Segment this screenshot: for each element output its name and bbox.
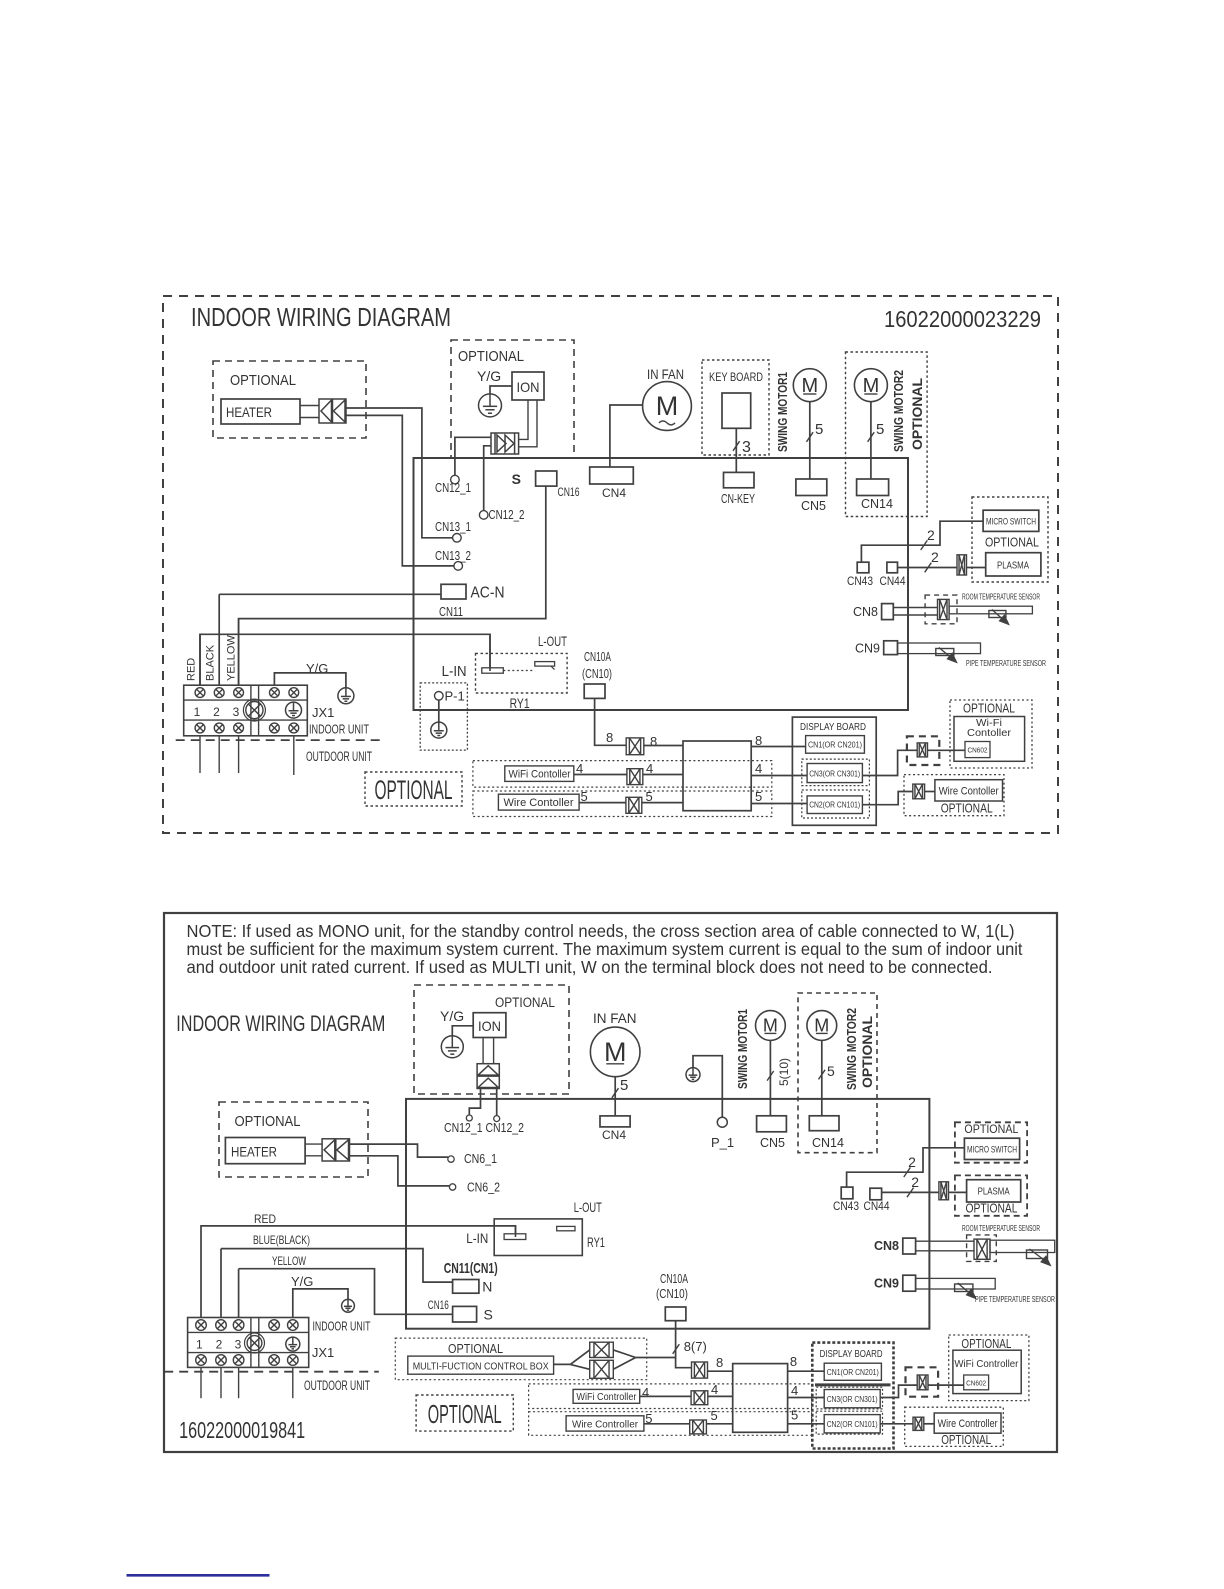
svg-text:(CN10): (CN10) — [582, 667, 612, 681]
svg-text:HEATER: HEATER — [231, 1144, 277, 1160]
svg-text:OUTDOOR UNIT: OUTDOOR UNIT — [304, 1378, 370, 1393]
svg-text:CN8: CN8 — [853, 605, 878, 619]
svg-text:CN14: CN14 — [812, 1136, 844, 1150]
svg-text:L-OUT: L-OUT — [574, 1199, 602, 1215]
svg-text:MICRO SWITCH: MICRO SWITCH — [967, 1145, 1017, 1155]
svg-text:OPTIONAL: OPTIONAL — [859, 1016, 875, 1088]
svg-text:CN3(OR CN301): CN3(OR CN301) — [809, 770, 860, 779]
svg-text:M: M — [656, 391, 679, 421]
svg-text:BLACK: BLACK — [205, 644, 217, 681]
svg-text:PLASMA: PLASMA — [978, 1187, 1010, 1198]
svg-text:INDOOR UNIT: INDOOR UNIT — [313, 1319, 371, 1334]
svg-text:DISPLAY BOARD: DISPLAY BOARD — [800, 721, 866, 733]
svg-text:OPTIONAL: OPTIONAL — [961, 1336, 1011, 1351]
svg-text:OPTIONAL: OPTIONAL — [235, 1113, 301, 1130]
svg-text:CN16: CN16 — [428, 1298, 449, 1312]
svg-text:OUTDOOR UNIT: OUTDOOR UNIT — [306, 749, 372, 764]
svg-text:5(10): 5(10) — [777, 1058, 791, 1086]
svg-text:Y/G: Y/G — [477, 368, 501, 384]
svg-text:CN12_2: CN12_2 — [489, 508, 525, 522]
svg-text:CN12_1 CN12_2: CN12_1 CN12_2 — [444, 1121, 524, 1135]
svg-text:HEATER: HEATER — [226, 404, 272, 420]
svg-text:RED: RED — [254, 1214, 276, 1226]
svg-text:8: 8 — [650, 734, 657, 749]
svg-text:CN602: CN602 — [968, 748, 988, 755]
svg-text:AC-N: AC-N — [471, 585, 505, 602]
svg-text:ION: ION — [478, 1018, 501, 1034]
svg-text:PIPE TEMPERATURE SENSOR: PIPE TEMPERATURE SENSOR — [966, 658, 1046, 668]
svg-text:PLASMA: PLASMA — [997, 561, 1029, 572]
svg-text:2: 2 — [927, 527, 935, 543]
svg-text:DISPLAY BOARD: DISPLAY BOARD — [820, 1348, 883, 1360]
svg-text:KEY BOARD: KEY BOARD — [709, 372, 763, 384]
svg-text:NOTE: If used as MONO unit, fo: NOTE: If used as MONO unit, for the stan… — [187, 921, 1015, 941]
svg-text:5: 5 — [755, 789, 762, 804]
svg-text:CN1(OR CN201): CN1(OR CN201) — [808, 741, 862, 750]
svg-text:BLUE(BLACK): BLUE(BLACK) — [253, 1233, 310, 1247]
svg-text:MULTI-FUCTION CONTROL BOX: MULTI-FUCTION CONTROL BOX — [413, 1362, 549, 1373]
svg-text:16022000019841: 16022000019841 — [179, 1417, 305, 1443]
svg-text:SWING MOTOR2: SWING MOTOR2 — [891, 370, 906, 452]
svg-text:CN11(CN1): CN11(CN1) — [444, 1260, 498, 1277]
svg-text:Wire Controller: Wire Controller — [572, 1419, 638, 1431]
svg-text:CN602: CN602 — [966, 1381, 986, 1388]
svg-text:CN11: CN11 — [439, 605, 463, 619]
svg-text:CN12_1: CN12_1 — [435, 481, 471, 495]
svg-text:1: 1 — [194, 705, 201, 719]
svg-text:SWING MOTOR2: SWING MOTOR2 — [844, 1008, 859, 1090]
svg-text:CN1(OR CN201): CN1(OR CN201) — [827, 1368, 879, 1377]
svg-text:OPTIONAL: OPTIONAL — [963, 701, 1015, 716]
svg-text:OPTIONAL: OPTIONAL — [375, 775, 453, 805]
svg-text:S: S — [484, 1307, 493, 1323]
svg-text:CN43: CN43 — [847, 574, 873, 588]
svg-text:WiFi Controller: WiFi Controller — [576, 1391, 636, 1403]
svg-text:2: 2 — [931, 549, 939, 565]
svg-text:WiFi Controller: WiFi Controller — [954, 1358, 1018, 1370]
svg-text:1: 1 — [196, 1338, 203, 1352]
svg-text:MICRO SWITCH: MICRO SWITCH — [986, 517, 1036, 527]
svg-text:Wire Contoller: Wire Contoller — [504, 797, 574, 809]
svg-text:M: M — [604, 1037, 627, 1067]
svg-text:2: 2 — [908, 1154, 916, 1170]
svg-text:Y/G: Y/G — [440, 1008, 464, 1024]
svg-text:2: 2 — [911, 1174, 919, 1190]
svg-text:8(7): 8(7) — [684, 1339, 707, 1354]
svg-text:CN44: CN44 — [880, 574, 906, 588]
svg-text:CN2(OR CN101): CN2(OR CN101) — [827, 1420, 878, 1429]
svg-text:CN4: CN4 — [602, 486, 626, 500]
svg-text:INDOOR WIRING DIAGRAM: INDOOR WIRING DIAGRAM — [191, 302, 451, 332]
svg-text:RY1: RY1 — [510, 695, 530, 711]
svg-text:5: 5 — [620, 1077, 628, 1094]
svg-text:4: 4 — [791, 1383, 798, 1398]
svg-text:INDOOR WIRING DIAGRAM: INDOOR WIRING DIAGRAM — [176, 1011, 385, 1036]
svg-text:CN4: CN4 — [602, 1128, 626, 1142]
svg-text:SWING MOTOR1: SWING MOTOR1 — [735, 1009, 750, 1089]
svg-text:CN16: CN16 — [558, 485, 580, 499]
svg-text:CN10A: CN10A — [660, 1272, 688, 1286]
svg-text:CN5: CN5 — [760, 1136, 785, 1150]
svg-text:16022000023229: 16022000023229 — [884, 306, 1041, 332]
svg-text:2: 2 — [213, 705, 220, 719]
svg-text:JX1: JX1 — [312, 705, 334, 720]
svg-text:CN13_2: CN13_2 — [435, 549, 471, 563]
svg-text:CN9: CN9 — [855, 642, 880, 656]
svg-text:3: 3 — [233, 705, 240, 719]
svg-text:OPTIONAL: OPTIONAL — [495, 995, 555, 1010]
svg-text:4: 4 — [711, 1382, 718, 1397]
svg-text:OPTIONAL: OPTIONAL — [448, 1341, 503, 1356]
svg-text:4: 4 — [642, 1385, 649, 1400]
svg-text:Wire Contoller: Wire Contoller — [939, 786, 999, 798]
svg-text:must be sufficient for the max: must be sufficient for the maximum syste… — [187, 939, 1023, 959]
svg-text:8: 8 — [790, 1354, 797, 1369]
svg-text:S: S — [512, 471, 521, 487]
svg-text:5: 5 — [791, 1408, 798, 1423]
svg-text:P-1: P-1 — [445, 689, 465, 704]
svg-text:INDOOR UNIT: INDOOR UNIT — [309, 722, 369, 737]
svg-text:M: M — [763, 1016, 778, 1036]
svg-text:CN10A: CN10A — [584, 650, 611, 664]
svg-text:CN6_1: CN6_1 — [464, 1152, 497, 1166]
svg-text:8: 8 — [606, 730, 613, 745]
svg-text:SWING MOTOR1: SWING MOTOR1 — [775, 372, 790, 452]
svg-text:OPTIONAL: OPTIONAL — [966, 1202, 1018, 1216]
svg-text:3: 3 — [742, 439, 751, 456]
svg-text:CN5: CN5 — [801, 499, 826, 513]
svg-text:OPTIONAL: OPTIONAL — [909, 378, 925, 450]
svg-text:3: 3 — [235, 1338, 242, 1352]
svg-text:YELLOW: YELLOW — [272, 1256, 306, 1268]
svg-text:PIPE TEMPERATURE SENSOR: PIPE TEMPERATURE SENSOR — [975, 1294, 1055, 1304]
svg-text:M: M — [814, 1016, 829, 1036]
svg-text:OPTIONAL: OPTIONAL — [964, 1122, 1018, 1136]
svg-text:OPTIONAL: OPTIONAL — [230, 372, 296, 389]
svg-text:5: 5 — [711, 1408, 718, 1423]
svg-text:L-IN: L-IN — [442, 664, 467, 680]
svg-text:Contoller: Contoller — [967, 728, 1012, 739]
svg-text:(CN10): (CN10) — [656, 1287, 688, 1301]
svg-text:CN3(OR CN301): CN3(OR CN301) — [827, 1395, 878, 1404]
svg-text:OPTIONAL: OPTIONAL — [428, 1399, 502, 1429]
svg-text:and outdoor unit rated current: and outdoor unit rated current. If used … — [187, 957, 993, 977]
svg-text:OPTIONAL: OPTIONAL — [458, 348, 524, 365]
svg-text:ION: ION — [517, 379, 540, 395]
svg-text:8: 8 — [716, 1355, 723, 1370]
svg-text:L-IN: L-IN — [466, 1230, 488, 1246]
svg-text:CN6_2: CN6_2 — [467, 1181, 500, 1195]
svg-text:5: 5 — [876, 421, 884, 438]
svg-text:OPTIONAL: OPTIONAL — [941, 801, 993, 816]
svg-text:5: 5 — [827, 1063, 835, 1079]
svg-text:CN-KEY: CN-KEY — [721, 492, 755, 506]
svg-text:CN43: CN43 — [833, 1199, 859, 1213]
svg-text:4: 4 — [755, 761, 762, 776]
svg-text:CN14: CN14 — [861, 497, 893, 511]
svg-text:CN44: CN44 — [864, 1199, 890, 1213]
svg-text:Y/G: Y/G — [291, 1274, 313, 1289]
svg-text:5: 5 — [815, 421, 823, 438]
svg-text:N: N — [482, 1279, 492, 1295]
svg-text:2: 2 — [216, 1338, 223, 1352]
svg-text:ROOM TEMPERATURE SENSOR: ROOM TEMPERATURE SENSOR — [962, 592, 1040, 602]
svg-text:WiFi Contoller: WiFi Contoller — [509, 769, 571, 781]
svg-text:RY1: RY1 — [587, 1234, 605, 1250]
svg-text:CN13_1: CN13_1 — [435, 520, 471, 534]
svg-text:CN9: CN9 — [874, 1277, 899, 1291]
svg-text:CN8: CN8 — [874, 1239, 899, 1253]
svg-text:ROOM TEMPERATURE SENSOR: ROOM TEMPERATURE SENSOR — [962, 1223, 1040, 1233]
svg-text:L-OUT: L-OUT — [538, 633, 567, 649]
svg-text:OPTIONAL: OPTIONAL — [985, 536, 1039, 550]
svg-text:RED: RED — [186, 658, 198, 681]
svg-text:OPTIONAL: OPTIONAL — [941, 1432, 991, 1447]
svg-text:IN FAN: IN FAN — [647, 367, 684, 382]
svg-text:IN FAN: IN FAN — [593, 1011, 637, 1026]
svg-text:CN2(OR CN101): CN2(OR CN101) — [809, 801, 860, 810]
svg-text:YELLOW: YELLOW — [226, 635, 238, 681]
svg-text:JX1: JX1 — [312, 1345, 334, 1360]
svg-text:P_1: P_1 — [711, 1135, 734, 1150]
svg-text:Wire Controller: Wire Controller — [938, 1418, 998, 1430]
